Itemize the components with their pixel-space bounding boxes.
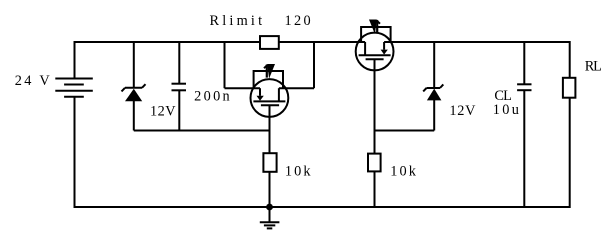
svg-text:10u: 10u bbox=[493, 102, 519, 118]
capacitor CL 10u bbox=[517, 42, 531, 207]
wire CL top lead bbox=[523, 42, 525, 84]
svg-text:24 V: 24 V bbox=[15, 73, 51, 89]
wire M1 left terminal bbox=[225, 87, 261, 89]
diode Q1 body diode bbox=[264, 64, 275, 79]
wire R2 bottom lead bbox=[374, 171, 376, 207]
wire zener2 top lead bbox=[433, 42, 435, 88]
wire Q1 body-diode loop bbox=[254, 71, 283, 88]
diode Q2 body diode bbox=[369, 20, 380, 35]
resistor R2 10k bbox=[368, 154, 381, 172]
wire zener2 bottom lead bbox=[433, 100, 435, 131]
wire zener1 top lead bbox=[133, 42, 135, 88]
wire mid rail left bbox=[134, 130, 270, 132]
svg-text:12V: 12V bbox=[150, 104, 176, 120]
svg-text:12V: 12V bbox=[449, 103, 476, 119]
wire top bus left segment bbox=[75, 41, 261, 43]
resistor RL bbox=[563, 41, 576, 208]
wire zener1 bottom lead bbox=[133, 101, 135, 131]
zener diode D1 12V bbox=[122, 42, 146, 131]
svg-text:120: 120 bbox=[285, 13, 311, 29]
wire battery bottom lead bbox=[74, 97, 76, 208]
resistor R1 10k bbox=[263, 153, 276, 172]
capacitor C1 200n bbox=[172, 42, 187, 131]
zener diode D2 12V bbox=[423, 42, 443, 131]
wire battery top lead bbox=[74, 41, 76, 79]
wire M1 gate feed vertical bbox=[224, 42, 226, 88]
wire Q1 source stem bbox=[269, 105, 271, 153]
wire M1 right terminal bbox=[279, 87, 314, 89]
svg-text:RL: RL bbox=[585, 59, 602, 75]
wire RL top lead bbox=[569, 41, 571, 78]
svg-text:Rlimit: Rlimit bbox=[210, 13, 263, 29]
resistor Rlimit 120 bbox=[260, 36, 279, 49]
transistor Q1 MOSFET bbox=[251, 64, 289, 117]
wire mid rail right bbox=[375, 130, 435, 132]
wire RL bottom lead bbox=[569, 98, 571, 208]
svg-text:10k: 10k bbox=[390, 163, 416, 179]
node ground junction dot bbox=[266, 204, 273, 211]
wire Q2 source stem bbox=[374, 59, 376, 153]
ground bbox=[260, 207, 280, 228]
wire top bus right segment bbox=[384, 41, 570, 43]
transistor Q2 MOSFET bbox=[356, 20, 394, 71]
wire bottom ground bus bbox=[75, 206, 570, 208]
battery V1 24V bbox=[55, 41, 93, 208]
wire cap1 bottom lead bbox=[178, 90, 180, 130]
wire CL bottom lead bbox=[523, 90, 525, 207]
wire R1 bottom lead bbox=[269, 172, 271, 207]
svg-text:200n: 200n bbox=[194, 88, 230, 104]
wire M1 right riser to bus bbox=[313, 42, 315, 88]
wire Q2 body-diode loop bbox=[361, 27, 391, 42]
svg-text:10k: 10k bbox=[285, 164, 311, 180]
wire top bus middle segment bbox=[279, 41, 365, 43]
wire cap1 top lead bbox=[178, 42, 180, 84]
